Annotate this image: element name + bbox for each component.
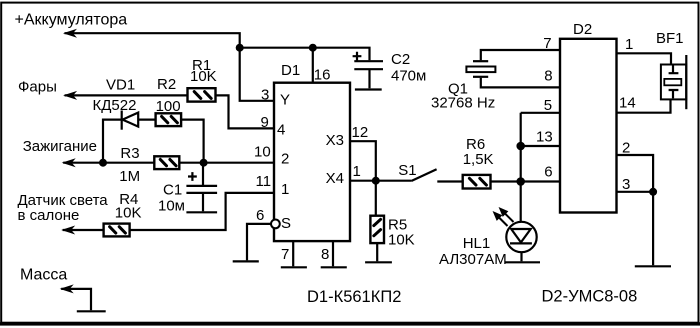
- svg-text:10: 10: [254, 144, 271, 161]
- svg-text:Y: Y: [280, 92, 290, 109]
- svg-text:D2: D2: [573, 21, 592, 38]
- svg-text:8: 8: [544, 67, 552, 84]
- svg-text:S1: S1: [398, 162, 416, 179]
- svg-text:2: 2: [281, 151, 289, 168]
- svg-text:КД522: КД522: [93, 97, 137, 114]
- svg-text:11: 11: [256, 173, 272, 190]
- svg-text:в салоне: в салоне: [18, 207, 80, 224]
- svg-text:1: 1: [625, 36, 633, 53]
- svg-text:1: 1: [353, 163, 361, 180]
- svg-text:7: 7: [543, 35, 551, 52]
- svg-text:8: 8: [321, 246, 329, 263]
- svg-text:10K: 10K: [388, 231, 415, 248]
- svg-text:470м: 470м: [391, 68, 426, 85]
- svg-text:X4: X4: [326, 170, 344, 187]
- svg-text:X3: X3: [326, 132, 344, 149]
- svg-text:5: 5: [544, 97, 552, 114]
- svg-text:D2-УМС8-08: D2-УМС8-08: [542, 288, 638, 306]
- svg-text:9: 9: [261, 114, 269, 131]
- svg-text:C1: C1: [163, 182, 182, 199]
- svg-text:12: 12: [352, 124, 369, 141]
- svg-text:32768 Hz: 32768 Hz: [431, 95, 495, 112]
- svg-text:S: S: [281, 215, 291, 232]
- svg-text:HL1: HL1: [463, 235, 491, 252]
- svg-text:14: 14: [619, 94, 636, 111]
- svg-text:7: 7: [281, 246, 289, 263]
- svg-text:АЛ307АМ: АЛ307АМ: [439, 251, 507, 268]
- svg-text:Фары: Фары: [18, 79, 57, 96]
- svg-text:R3: R3: [120, 145, 139, 162]
- svg-text:10м: 10м: [158, 198, 185, 215]
- svg-text:R2: R2: [157, 76, 176, 93]
- svg-text:VD1: VD1: [106, 77, 135, 94]
- svg-text:10K: 10K: [115, 205, 142, 222]
- svg-text:Зажигание: Зажигание: [23, 138, 97, 155]
- svg-text:10K: 10K: [190, 68, 217, 85]
- svg-text:13: 13: [536, 129, 553, 146]
- svg-text:1M: 1M: [119, 168, 140, 185]
- svg-text:BF1: BF1: [656, 30, 684, 47]
- svg-text:6: 6: [256, 207, 264, 224]
- svg-text:Масса: Масса: [20, 267, 67, 284]
- svg-text:1: 1: [281, 181, 289, 198]
- svg-text:2: 2: [622, 140, 630, 157]
- svg-text:1,5K: 1,5K: [463, 151, 494, 168]
- svg-text:C2: C2: [391, 51, 410, 68]
- svg-text:3: 3: [622, 176, 630, 193]
- svg-text:D1: D1: [281, 62, 300, 79]
- svg-text:6: 6: [544, 164, 552, 181]
- svg-text:+Аккумулятора: +Аккумулятора: [15, 12, 128, 29]
- svg-text:4: 4: [277, 122, 285, 139]
- svg-text:100: 100: [156, 98, 181, 115]
- svg-text:3: 3: [261, 87, 269, 104]
- svg-text:16: 16: [314, 67, 331, 84]
- svg-text:D1-К561КП2: D1-К561КП2: [307, 288, 401, 306]
